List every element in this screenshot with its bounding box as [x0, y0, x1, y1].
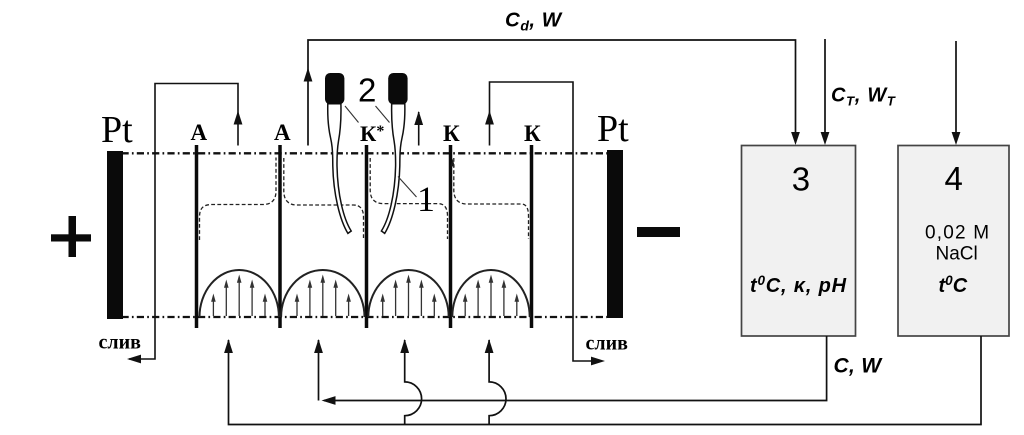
svg-text:Pt: Pt	[101, 109, 133, 151]
svg-text:1: 1	[417, 179, 435, 219]
svg-text:А: А	[191, 120, 208, 145]
arrowhead right drain outlet	[591, 357, 605, 366]
concentration profile compartment A1-A2 (dashed)	[200, 158, 277, 241]
arrowhead up on diluate riser	[304, 68, 313, 82]
arrowhead short outlet	[414, 111, 423, 125]
svg-text:t0C: t0C	[939, 273, 968, 297]
flow arrows compartment K1-K2	[463, 275, 519, 317]
wire top diluate loop from cell to box 3	[308, 40, 796, 146]
wire feed riser with hop compartment 4	[405, 340, 422, 425]
svg-text:0,02 M: 0,02 M	[925, 223, 990, 244]
probe 2 capillary tube	[381, 104, 404, 234]
arrowhead left at end of box3 return	[322, 396, 336, 405]
box 4	[898, 146, 1009, 337]
svg-text:3: 3	[792, 161, 810, 198]
svg-text:слив: слив	[586, 333, 629, 355]
arrowhead feed riser compartment 1	[224, 339, 233, 353]
flow dome compartment K1-K2	[452, 270, 529, 317]
wire arrow into box 4	[955, 41, 957, 140]
wire left bracket manifold	[129, 84, 238, 360]
membrane A1	[195, 145, 199, 328]
membrane K1	[449, 145, 453, 328]
concentration profile compartment A2-K* (dashed)	[284, 158, 364, 240]
electrode Pt left	[107, 151, 123, 319]
concentration profile compartment K*-K1 (dashed)	[370, 158, 447, 239]
arrowhead up on left bracket riser	[234, 111, 243, 125]
arrowhead down CT WT	[821, 132, 830, 145]
probe 2 cap	[388, 73, 407, 104]
small arrowhead artifact at K1 right	[451, 159, 455, 167]
minus terminal	[637, 227, 680, 237]
arrowhead left drain outlet	[127, 355, 141, 364]
svg-text:слив: слив	[99, 332, 142, 354]
svg-text:C, W: C, W	[834, 355, 884, 378]
plus terminal	[69, 216, 77, 257]
wire CT WT arrow into box 3	[824, 39, 826, 140]
wire supply from box 4 (NaCl feed)	[229, 336, 982, 425]
wire feed riser with hop compartment 5	[489, 340, 506, 425]
svg-text:2: 2	[358, 72, 376, 109]
svg-text:К: К	[524, 121, 541, 146]
probe 1 capillary tube	[328, 104, 351, 234]
wire recycle from box 3 (concentrate return)	[324, 336, 827, 401]
membrane A2	[278, 145, 282, 328]
flow arrows compartment K*-K1	[380, 275, 436, 317]
flow arrows compartment A2-K*	[295, 275, 351, 317]
concentration profile compartment K1-K2 (dashed)	[454, 158, 529, 239]
svg-text:CT, WT: CT, WT	[831, 85, 896, 109]
electrode Pt right	[607, 150, 623, 318]
box 3	[742, 146, 856, 337]
svg-text:К: К	[443, 121, 460, 146]
membrane K2	[530, 145, 534, 328]
flow dome compartment A1-A2	[200, 270, 279, 317]
arrowhead up on right bracket riser	[485, 111, 494, 125]
flow arrows compartment A1-A2	[211, 275, 267, 317]
top boundary dash-dot line	[122, 152, 608, 154]
arrowhead down into box 4	[952, 132, 961, 145]
svg-text:4: 4	[945, 160, 963, 197]
arrowhead down into box 3	[791, 132, 800, 145]
wire right bracket manifold	[490, 82, 601, 361]
wire feed riser compartment 3	[318, 340, 320, 401]
probe 1 cap	[325, 73, 344, 104]
svg-text:Pt: Pt	[597, 108, 629, 150]
flow dome compartment K*-K1	[368, 270, 448, 317]
flow dome compartment A2-K*	[281, 270, 364, 317]
svg-text:А: А	[274, 120, 291, 145]
membrane K*	[365, 145, 369, 328]
bottom boundary dash-dot line	[122, 316, 608, 318]
svg-text:Cd, W: Cd, W	[505, 9, 563, 34]
wire short outlet arrow compartment 4	[418, 112, 420, 146]
svg-text:NaCl: NaCl	[936, 244, 978, 265]
